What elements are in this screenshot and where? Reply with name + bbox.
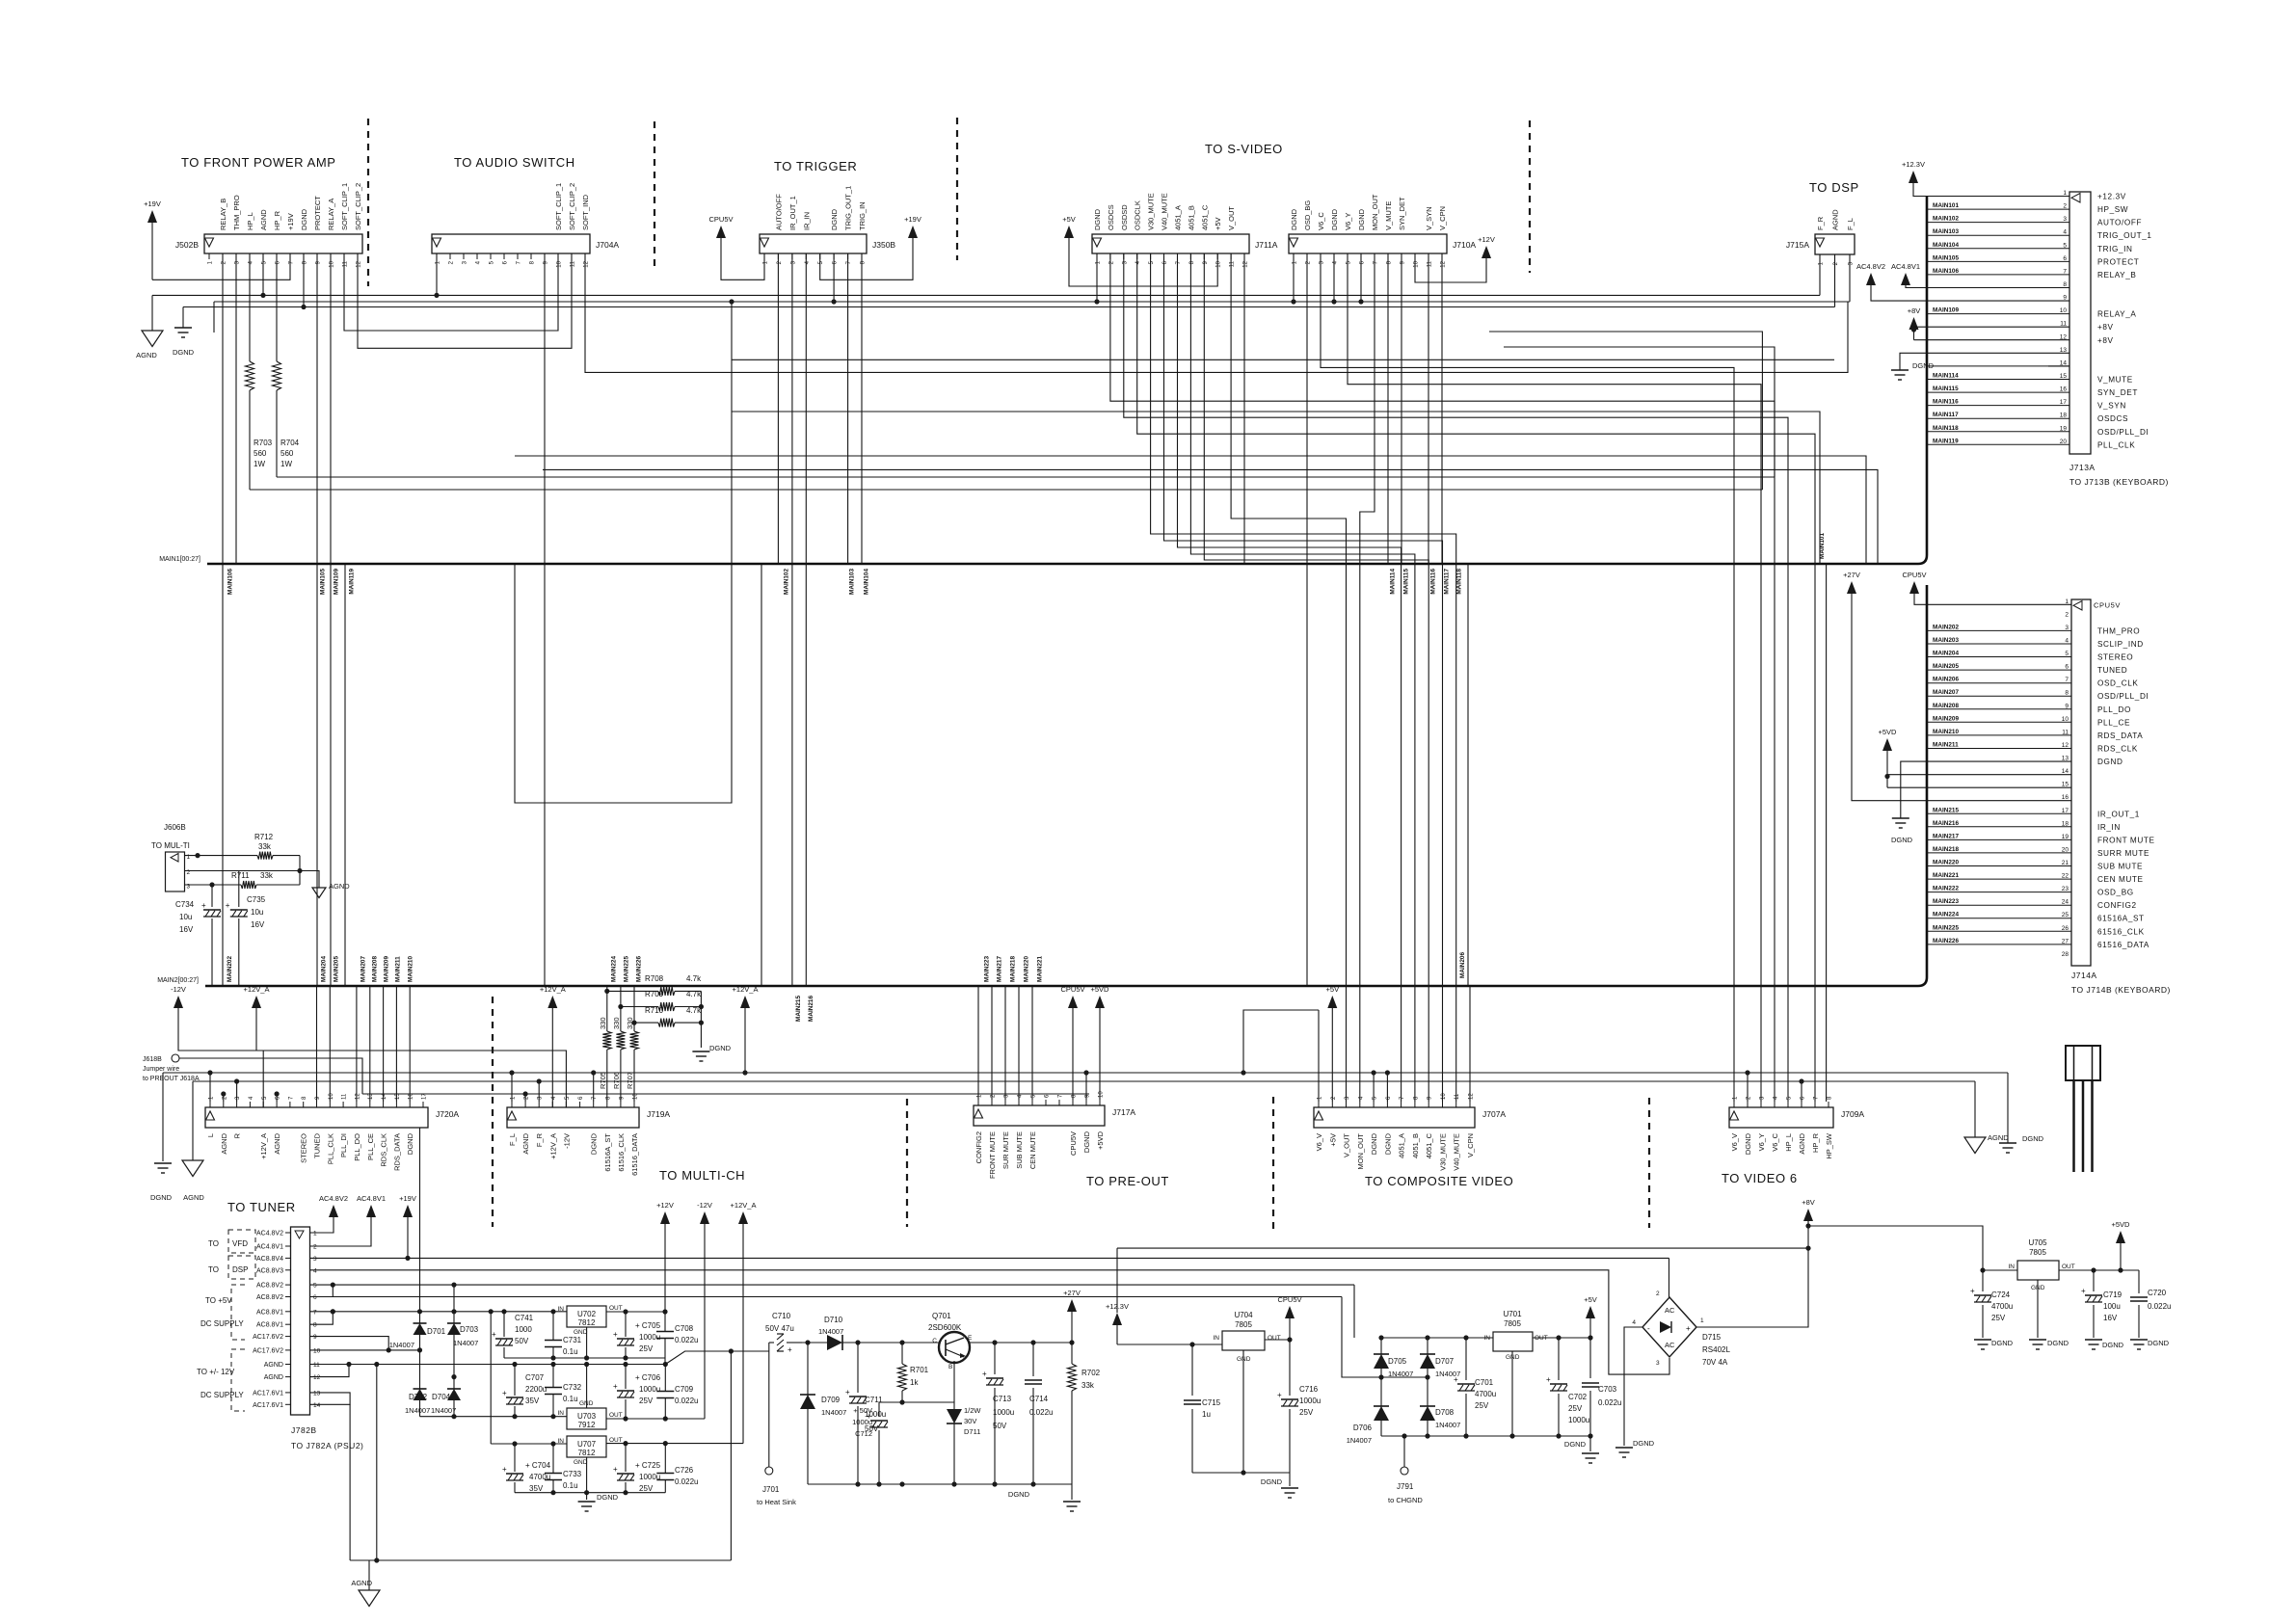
svg-text:7812: 7812 xyxy=(578,1318,596,1327)
svg-text:+5V: +5V xyxy=(1326,985,1340,994)
capacitor C719 100u 16V xyxy=(2093,1270,2095,1291)
power +12V arrow PSU xyxy=(660,1211,670,1224)
svg-text:MAIN215: MAIN215 xyxy=(795,996,802,1022)
svg-text:AC: AC xyxy=(1665,1341,1675,1349)
svg-text:MAIN109: MAIN109 xyxy=(1933,307,1959,314)
svg-text:+5V: +5V xyxy=(1328,1133,1337,1147)
svg-text:AC8.8V4: AC8.8V4 xyxy=(256,1256,283,1263)
connector J714A xyxy=(2071,599,2091,966)
svg-text:10: 10 xyxy=(1441,1093,1447,1100)
svg-text:MAIN119: MAIN119 xyxy=(349,569,356,595)
svg-text:11: 11 xyxy=(342,1093,348,1100)
svg-text:MAIN202: MAIN202 xyxy=(227,956,233,982)
svg-text:+: + xyxy=(1454,1375,1458,1384)
svg-text:TO +/- 12V: TO +/- 12V xyxy=(197,1368,235,1376)
power -12V arrow xyxy=(174,996,183,1008)
svg-text:MAIN218: MAIN218 xyxy=(1933,846,1959,853)
svg-text:AGND: AGND xyxy=(329,882,350,891)
svg-text:MAIN207: MAIN207 xyxy=(360,956,367,982)
connector J701 to heat sink xyxy=(768,1343,770,1467)
svg-text:1000: 1000 xyxy=(515,1325,532,1334)
svg-text:+12V_A: +12V_A xyxy=(731,1201,757,1210)
capacitor C726 0.022u xyxy=(664,1444,666,1473)
wire bridge plus output to +8V node xyxy=(1696,1221,1808,1327)
svg-text:3: 3 xyxy=(2065,625,2069,631)
wire AC17.6V2 pin9 join xyxy=(310,1337,389,1350)
separator dashed line 1 xyxy=(367,119,369,286)
svg-text:J714A: J714A xyxy=(2071,971,2097,980)
connector J717A xyxy=(974,1105,1105,1126)
capacitor C704 4700u 35V xyxy=(514,1444,516,1472)
svg-text:15: 15 xyxy=(2060,373,2068,380)
svg-text:17: 17 xyxy=(2062,808,2069,814)
wire J714A pin 12 xyxy=(1927,748,2071,750)
svg-text:PLL_DI: PLL_DI xyxy=(339,1133,348,1157)
svg-text:IN: IN xyxy=(558,1306,565,1313)
power +19V at J350B xyxy=(908,226,918,238)
svg-text:+: + xyxy=(502,1465,507,1474)
svg-text:DGND: DGND xyxy=(2102,1341,2124,1349)
wire J707A pin12 V_CPN xyxy=(1469,986,1471,1102)
wire U707 input rail xyxy=(491,1443,567,1445)
svg-text:MAIN210: MAIN210 xyxy=(1933,729,1959,735)
power +12V at J710A pin10 xyxy=(1482,246,1491,258)
svg-text:R708: R708 xyxy=(645,974,664,983)
wire AGND pin12 join xyxy=(310,1365,350,1377)
svg-text:MAIN218: MAIN218 xyxy=(1010,956,1017,982)
wire feed to U701 top rail xyxy=(1353,1285,1355,1338)
svg-text:IN: IN xyxy=(558,1410,565,1417)
svg-text:R706: R706 xyxy=(612,1072,621,1089)
svg-text:TUNED: TUNED xyxy=(313,1132,322,1157)
svg-text:SYN_DET: SYN_DET xyxy=(2097,388,2138,397)
svg-text:MAIN208: MAIN208 xyxy=(1933,703,1959,709)
svg-text:C703: C703 xyxy=(1598,1385,1617,1394)
svg-text:TUNED: TUNED xyxy=(2097,666,2127,675)
svg-text:AC4.8V1: AC4.8V1 xyxy=(357,1194,386,1203)
wire vertical x790 bus1 to bus2 xyxy=(761,564,762,986)
power +5V at J707A xyxy=(1327,996,1337,1008)
svg-text:RELAY_B: RELAY_B xyxy=(2097,271,2136,279)
svg-text:D707: D707 xyxy=(1435,1357,1455,1366)
wire J714A pin 18 xyxy=(1927,826,2071,828)
wire AC8.8V3 rail pin4 to bridge xyxy=(310,1270,1670,1374)
svg-text:D703: D703 xyxy=(460,1325,479,1334)
svg-text:5: 5 xyxy=(313,1283,317,1290)
svg-text:TO AUDIO SWITCH: TO AUDIO SWITCH xyxy=(454,155,575,170)
svg-text:0.022u: 0.022u xyxy=(675,1477,698,1486)
wire -12V input rail xyxy=(420,1416,568,1418)
svg-text:U701: U701 xyxy=(1503,1310,1522,1318)
svg-text:1N4007: 1N4007 xyxy=(431,1406,456,1415)
svg-text:V6_V: V6_V xyxy=(1730,1133,1739,1151)
svg-text:MAIN109: MAIN109 xyxy=(334,569,340,595)
svg-text:DGND: DGND xyxy=(1370,1132,1378,1155)
wire J711A pin12 down to bus1 xyxy=(1243,253,1245,564)
wire AC8.8V4 rail pin3 to bridge xyxy=(310,1257,1669,1259)
power +12V_A arrow mid sheet xyxy=(740,996,750,1008)
svg-text:4051_A: 4051_A xyxy=(1174,205,1183,230)
svg-text:3: 3 xyxy=(313,1256,317,1263)
svg-text:C741: C741 xyxy=(515,1314,534,1322)
wire long audio line y1122 xyxy=(193,1080,1975,1082)
svg-text:27: 27 xyxy=(2062,938,2069,945)
wire AGND rail diagonal jog xyxy=(512,1362,517,1367)
svg-text:DGND: DGND xyxy=(150,1193,173,1202)
svg-text:10: 10 xyxy=(557,260,563,267)
svg-text:+8V: +8V xyxy=(2097,336,2114,345)
svg-text:1000u: 1000u xyxy=(993,1408,1014,1417)
wire J714A pin 9 xyxy=(1927,708,2071,710)
wire AC8.8V1 pin8 join xyxy=(310,1312,334,1324)
wire Q701 emitter rail xyxy=(969,1342,1072,1344)
wire J502B pin5 AGND to y306 xyxy=(262,253,264,295)
svg-text:+: + xyxy=(226,901,230,910)
separator dashed line 5 xyxy=(492,997,494,1227)
svg-text:RDS_CLK: RDS_CLK xyxy=(2097,745,2138,754)
svg-text:TO TUNER: TO TUNER xyxy=(227,1200,296,1214)
ground DGND C719 xyxy=(2085,1339,2102,1341)
power +5VD arrow bottom right xyxy=(2116,1231,2125,1243)
power +12.3V arrow xyxy=(1112,1313,1122,1325)
svg-text:OSDCS: OSDCS xyxy=(2097,414,2128,423)
wire J713A pin 17 xyxy=(1927,405,2069,407)
svg-text:V_MUTE: V_MUTE xyxy=(2097,376,2133,385)
svg-text:C724: C724 xyxy=(1991,1290,2011,1299)
svg-text:1: 1 xyxy=(313,1231,317,1237)
svg-text:AUTO/OFF: AUTO/OFF xyxy=(2097,219,2142,227)
svg-text:0.1u: 0.1u xyxy=(563,1395,578,1403)
svg-text:+: + xyxy=(982,1370,987,1378)
wire J710A pin6 DGND to y313 xyxy=(1360,253,1362,302)
svg-text:OUT: OUT xyxy=(609,1305,623,1312)
svg-text:TO PRE-OUT: TO PRE-OUT xyxy=(1086,1174,1169,1188)
wire U707 feed drop xyxy=(490,1312,492,1444)
wire L link y344 right xyxy=(1489,332,1762,490)
svg-text:GND: GND xyxy=(574,1329,588,1336)
svg-text:2: 2 xyxy=(1656,1290,1660,1297)
svg-text:5: 5 xyxy=(2065,651,2069,657)
wire J502B pin8 DGND to y318 xyxy=(303,253,305,307)
svg-text:J791: J791 xyxy=(1397,1482,1414,1491)
transistor package outline xyxy=(2066,1046,2100,1080)
power +27V to J714A pin16 xyxy=(1847,581,1856,594)
svg-text:1/2W: 1/2W xyxy=(964,1406,981,1415)
diode D706 1N4007 xyxy=(1374,1406,1389,1421)
svg-text:C731: C731 xyxy=(563,1336,582,1344)
wire J713A pin 20 xyxy=(1927,443,2069,445)
svg-text:2SD600K: 2SD600K xyxy=(928,1323,962,1332)
wire J714A pin 4 xyxy=(1927,643,2071,645)
wire J719A pin2 AGND to y1135 xyxy=(524,1094,526,1102)
svg-text:R702: R702 xyxy=(1081,1369,1101,1377)
svg-text:+: + xyxy=(2081,1287,2086,1295)
wire to AGND from R711 R712 xyxy=(300,871,319,889)
wire SOFT_CLIP_1 link J502B pin11 to J704A pin10 xyxy=(344,253,558,331)
wire J710A pin1 DGND to y313 xyxy=(1293,253,1295,302)
svg-text:MAIN216: MAIN216 xyxy=(808,996,814,1022)
svg-text:4.7k: 4.7k xyxy=(686,990,702,998)
svg-text:MAIN115: MAIN115 xyxy=(1933,386,1959,392)
wire long horizontal y473 xyxy=(515,456,1866,564)
capacitor C720 0.022u xyxy=(2138,1270,2140,1293)
wire J709A pin8 HP_SW from bus1 xyxy=(1826,564,1828,1102)
svg-text:25V: 25V xyxy=(639,1344,654,1353)
svg-text:D715: D715 xyxy=(1702,1333,1722,1342)
svg-text:C709: C709 xyxy=(675,1385,694,1394)
wire J350B pin6 DGND to y313 xyxy=(833,253,835,302)
svg-text:C711: C711 xyxy=(865,1396,883,1404)
svg-text:4: 4 xyxy=(1632,1319,1636,1326)
svg-text:11: 11 xyxy=(343,260,349,267)
power CPU5V to J714A pin1 xyxy=(1909,581,1919,594)
power +12.3V to J713A pin1 xyxy=(1909,171,1918,183)
svg-text:AC17.6V1: AC17.6V1 xyxy=(253,1390,283,1397)
connector J710A xyxy=(1289,234,1447,253)
svg-text:MAIN222: MAIN222 xyxy=(1933,886,1959,892)
svg-text:7805: 7805 xyxy=(1504,1319,1521,1328)
wire HP_R long horizontal y495 xyxy=(277,476,1775,478)
wire J711A pin9 4051_C to J707A pin9 xyxy=(1204,253,1428,1102)
svg-text:SUB MUTE: SUB MUTE xyxy=(1015,1131,1024,1169)
separator dashed line 7 xyxy=(1272,1097,1274,1229)
svg-text:MAIN106: MAIN106 xyxy=(227,569,234,595)
svg-text:IR_IN: IR_IN xyxy=(2097,823,2121,832)
svg-text:MAIN117: MAIN117 xyxy=(1444,569,1451,595)
svg-text:+5VD: +5VD xyxy=(1091,985,1110,994)
svg-text:AGND: AGND xyxy=(1988,1133,2009,1142)
resistor R704 560 1W xyxy=(276,253,278,361)
wire to U704 IN xyxy=(1117,1344,1222,1345)
svg-text:SOFT_CLIP_2: SOFT_CLIP_2 xyxy=(354,183,362,230)
wire J710A pin12 V_CPN to bus1 xyxy=(1441,253,1443,564)
svg-text:J709A: J709A xyxy=(1841,1109,1864,1119)
svg-text:MAIN103: MAIN103 xyxy=(1933,228,1959,235)
wire +19V to J502B pin7 xyxy=(152,253,290,279)
wire J502B pin3 THM_PRO down to bus1 xyxy=(235,253,237,564)
svg-text:R704: R704 xyxy=(280,439,300,447)
svg-text:RELAY_A: RELAY_A xyxy=(2097,310,2136,319)
svg-text:10: 10 xyxy=(330,260,335,267)
svg-text:R: R xyxy=(233,1132,242,1138)
wire long horizontal y487 xyxy=(543,469,1878,564)
svg-text:MAIN117: MAIN117 xyxy=(1933,412,1959,418)
wire J710A pin5 V6_Y to J709A pin3 xyxy=(1348,253,1761,1102)
wire MAIN119 bus1 to bus2 xyxy=(344,564,346,986)
ground DGND at J713A pin13 xyxy=(1900,353,2069,370)
svg-text:+: + xyxy=(1686,1324,1691,1333)
svg-text:MAIN104: MAIN104 xyxy=(1933,242,1959,249)
wire long line y318.5 xyxy=(183,306,1835,308)
svg-text:1000u: 1000u xyxy=(639,1385,660,1394)
svg-text:D711: D711 xyxy=(964,1427,980,1436)
svg-text:MAIN211: MAIN211 xyxy=(395,956,402,982)
bridge rectifier D715 RS402L xyxy=(1642,1297,1696,1357)
svg-text:+12V: +12V xyxy=(1478,235,1495,244)
svg-text:J704A: J704A xyxy=(596,240,619,250)
svg-text:MAIN205: MAIN205 xyxy=(1933,663,1959,670)
svg-text:DGND: DGND xyxy=(1991,1339,2014,1347)
wire J350B pin3 IR_OUT_1 down to bus2 xyxy=(791,253,793,986)
svg-text:0.1u: 0.1u xyxy=(563,1481,578,1490)
svg-text:RDS_DATA: RDS_DATA xyxy=(2097,732,2143,740)
svg-text:-: - xyxy=(1647,1324,1650,1333)
wire J713A pin 3 xyxy=(1927,222,2069,224)
capacitor C732 0.1u xyxy=(552,1365,554,1388)
svg-text:MAIN116: MAIN116 xyxy=(1430,569,1437,595)
svg-text:OSD_BG: OSD_BG xyxy=(1303,200,1312,230)
svg-text:4: 4 xyxy=(2063,229,2067,236)
svg-text:AC4.8V2: AC4.8V2 xyxy=(256,1231,283,1237)
svg-text:TO: TO xyxy=(208,1239,219,1248)
svg-text:J606B: J606B xyxy=(164,823,186,832)
diode D708 1N4007 xyxy=(1420,1406,1435,1421)
svg-text:12: 12 xyxy=(1441,260,1447,267)
svg-text:AC4.8V1: AC4.8V1 xyxy=(256,1244,283,1251)
svg-text:MAIN223: MAIN223 xyxy=(984,956,991,982)
capacitor C716 1000u 25V xyxy=(1289,1340,1291,1396)
wire AC8.8V2 rail pin5 to U701 xyxy=(310,1284,1355,1286)
svg-text:15: 15 xyxy=(2062,782,2069,788)
svg-text:J720A: J720A xyxy=(436,1109,459,1119)
svg-text:F_L: F_L xyxy=(508,1133,517,1146)
wire J714A pin 24 xyxy=(1927,904,2071,906)
svg-text:D709: D709 xyxy=(821,1396,841,1404)
wire J710A pin9 SYN_DET to bus1 xyxy=(1401,253,1402,564)
svg-text:R712: R712 xyxy=(254,833,274,841)
svg-text:AC17.6V2: AC17.6V2 xyxy=(253,1347,283,1354)
svg-text:50V 47u: 50V 47u xyxy=(765,1324,794,1333)
capacitor C702 25V 1000u xyxy=(1558,1338,1560,1380)
ground DGND U704 block xyxy=(1289,1473,1291,1486)
svg-text:MAIN2[00:27]: MAIN2[00:27] xyxy=(157,977,199,984)
svg-text:C735: C735 xyxy=(247,895,266,904)
svg-text:11: 11 xyxy=(1230,260,1236,267)
wire J714A pin 10 xyxy=(1927,721,2071,723)
wire J710A pin4 DGND to y313 xyxy=(1333,253,1335,302)
svg-text:25V: 25V xyxy=(639,1484,654,1493)
zener D711 1/2W 30V xyxy=(953,1402,955,1409)
svg-text:DGND: DGND xyxy=(1564,1440,1587,1449)
svg-text:TO MUL-TI: TO MUL-TI xyxy=(151,841,190,850)
svg-text:24: 24 xyxy=(2062,899,2069,906)
connector J720A xyxy=(205,1107,428,1128)
svg-text:+: + xyxy=(613,1382,618,1391)
svg-text:V_OUT: V_OUT xyxy=(1227,206,1236,230)
wire vertical x534 to y833 xyxy=(515,302,732,803)
wire +17V rail to U702 IN xyxy=(331,1309,335,1314)
wire U701 top rail xyxy=(1381,1337,1493,1339)
svg-text:7: 7 xyxy=(2063,268,2067,275)
wire J713A pin 6 xyxy=(1927,260,2069,262)
wire J720A pin1 L to y1113 xyxy=(209,1073,211,1102)
wire J709A pin2 DGND xyxy=(1747,1073,1749,1102)
svg-text:J707A: J707A xyxy=(1482,1109,1506,1119)
svg-text:+8V: +8V xyxy=(2097,323,2114,332)
svg-text:10: 10 xyxy=(1216,260,1222,267)
svg-text:11: 11 xyxy=(1428,260,1433,267)
svg-text:14: 14 xyxy=(313,1402,321,1409)
svg-text:SUB MUTE: SUB MUTE xyxy=(2097,863,2143,871)
svg-text:HP_SW: HP_SW xyxy=(1825,1132,1833,1159)
capacitor C733 0.1u xyxy=(552,1444,554,1473)
power +5VD at J717A xyxy=(1095,996,1105,1008)
svg-text:MAIN217: MAIN217 xyxy=(1933,833,1959,839)
svg-text:+27V: +27V xyxy=(1843,571,1860,579)
svg-text:U703: U703 xyxy=(577,1412,597,1421)
diode D709 1N4007 xyxy=(805,1340,810,1344)
wire J714A pin 27 xyxy=(1927,944,2071,945)
svg-text:2: 2 xyxy=(2065,611,2069,618)
svg-text:MAIN1[00:27]: MAIN1[00:27] xyxy=(159,556,200,563)
svg-text:V_CPN: V_CPN xyxy=(1466,1133,1475,1157)
svg-text:GND: GND xyxy=(574,1459,588,1466)
svg-text:RELAY_B: RELAY_B xyxy=(219,199,227,230)
svg-text:DGND: DGND xyxy=(1093,208,1102,230)
svg-text:THM_PRO: THM_PRO xyxy=(2097,626,2140,635)
svg-text:1: 1 xyxy=(1700,1317,1704,1324)
connector J704A xyxy=(432,234,590,253)
connector J502B xyxy=(204,234,362,253)
svg-text:R701: R701 xyxy=(910,1366,929,1374)
resistor R711 33k xyxy=(185,884,242,886)
wire U701 output +5V xyxy=(1533,1337,1590,1339)
svg-text:TO J782A (PSU2): TO J782A (PSU2) xyxy=(291,1441,363,1450)
svg-text:MAIN206: MAIN206 xyxy=(1459,952,1466,978)
svg-text:PLL_CLK: PLL_CLK xyxy=(2097,440,2135,449)
svg-text:61516A_ST: 61516A_ST xyxy=(2097,915,2145,923)
svg-text:+27V: +27V xyxy=(1063,1289,1081,1297)
svg-text:J715A: J715A xyxy=(1786,240,1809,250)
connector J715A xyxy=(1815,234,1855,254)
power arrow AC4.8V1 above J782B xyxy=(366,1205,376,1217)
power +8V to J713A pins 11,12 xyxy=(1909,317,1919,330)
svg-text:+5V: +5V xyxy=(1062,215,1076,224)
svg-text:50V: 50V xyxy=(515,1337,529,1345)
svg-text:OSDCLK: OSDCLK xyxy=(1134,200,1142,230)
capacitor C741 1000 50V xyxy=(503,1312,505,1337)
wire J711A pin11 V_OUT to J707A pin3 xyxy=(1231,253,1346,1102)
ground DGND at J714A pin13 xyxy=(1901,761,2071,818)
svg-text:to CHGND: to CHGND xyxy=(1388,1496,1423,1504)
svg-text:AC17.6V1: AC17.6V1 xyxy=(253,1402,283,1409)
svg-text:V40_MUTE: V40_MUTE xyxy=(1453,1133,1461,1171)
ground DGND C720 xyxy=(2130,1339,2148,1341)
svg-text:SURR MUTE: SURR MUTE xyxy=(2097,849,2149,858)
svg-text:DGND: DGND xyxy=(1891,836,1913,844)
svg-text:OSDCS: OSDCS xyxy=(1107,204,1115,230)
svg-text:20: 20 xyxy=(2062,846,2069,853)
svg-text:+8V: +8V xyxy=(1908,306,1921,315)
wire U705 output +5VD xyxy=(2059,1269,2139,1271)
svg-text:AGND: AGND xyxy=(183,1193,204,1202)
svg-text:MAIN207: MAIN207 xyxy=(1933,689,1959,696)
power +19V at J502B xyxy=(147,210,157,223)
svg-text:OUT: OUT xyxy=(609,1437,623,1444)
ground AGND bottom left xyxy=(182,1160,203,1177)
svg-text:61516_CLK: 61516_CLK xyxy=(617,1133,626,1172)
regulator U701 7805 xyxy=(1493,1332,1533,1351)
resistor R712 33k xyxy=(257,852,273,860)
wire long audio line y1113 xyxy=(163,1072,2008,1074)
svg-text:19: 19 xyxy=(2060,425,2068,432)
svg-text:DC SUPPLY: DC SUPPLY xyxy=(200,1319,244,1328)
svg-text:61516_DATA: 61516_DATA xyxy=(2097,941,2149,949)
svg-text:-12V: -12V xyxy=(171,985,186,994)
svg-text:DGND: DGND xyxy=(2148,1339,2170,1347)
resistor R707 330 xyxy=(633,986,635,1031)
ground rail U701 block xyxy=(1381,1435,1590,1437)
